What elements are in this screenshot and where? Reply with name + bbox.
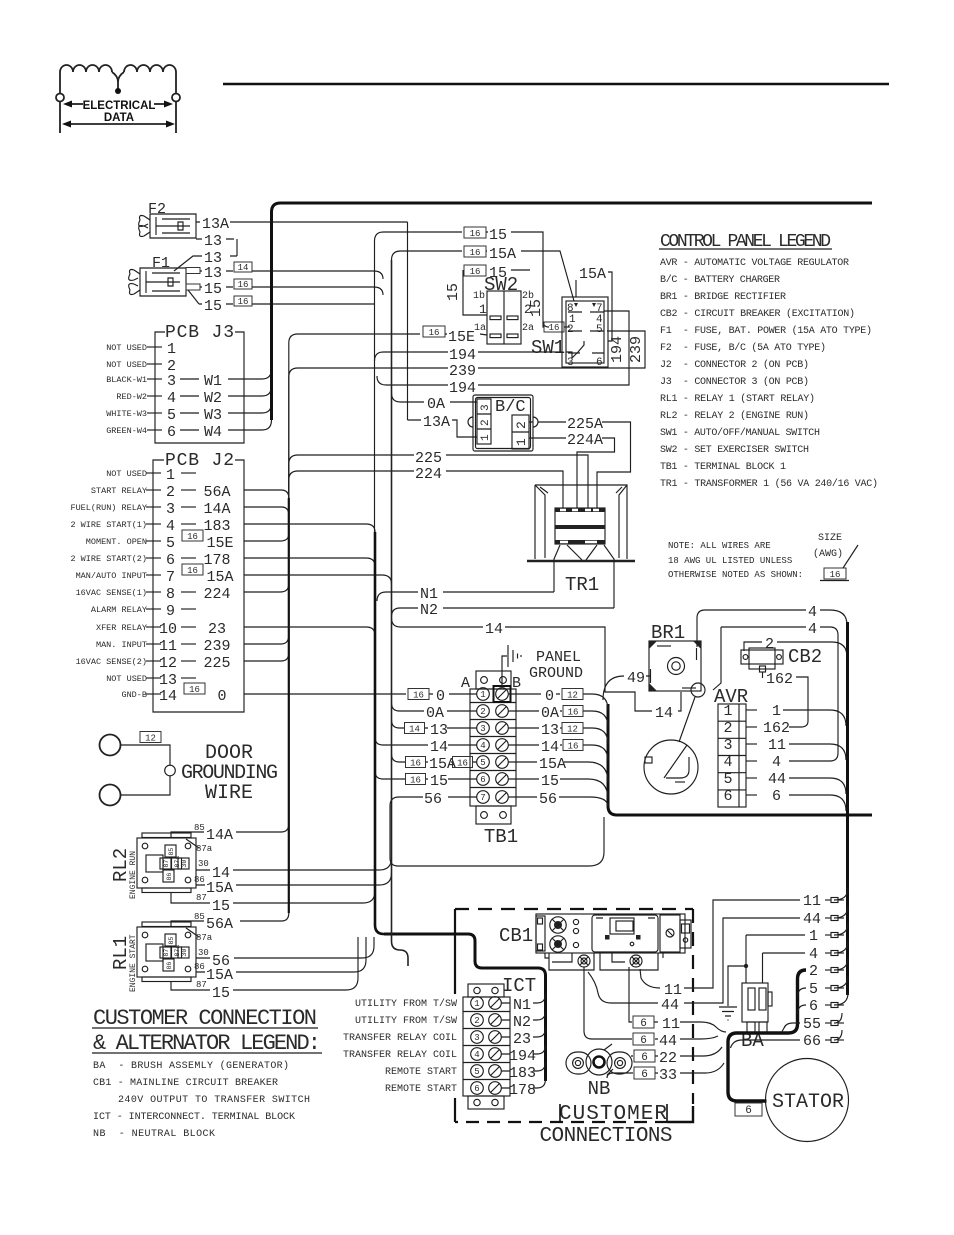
svg-text:13A: 13A bbox=[202, 216, 229, 233]
svg-text:XFER RELAY: XFER RELAY bbox=[96, 623, 147, 633]
J3 pin 6 bbox=[147, 429, 162, 431]
svg-text:7: 7 bbox=[480, 793, 485, 803]
TB1 B1 ground cell highlight bbox=[494, 686, 511, 702]
svg-text:33: 33 bbox=[659, 1067, 677, 1084]
connector J3 (PCB J3) bbox=[155, 332, 244, 443]
svg-text:4: 4 bbox=[808, 621, 817, 638]
svg-text:14: 14 bbox=[485, 621, 503, 638]
CB1 feet bbox=[545, 953, 663, 970]
J3 wire W4 bbox=[180, 429, 199, 431]
svg-text:225A: 225A bbox=[567, 416, 603, 433]
svg-text:86: 86 bbox=[194, 962, 205, 972]
svg-text:85: 85 bbox=[194, 823, 205, 833]
svg-text:23: 23 bbox=[513, 1031, 531, 1048]
svg-text:16VAC SENSE(1): 16VAC SENSE(1) bbox=[76, 588, 147, 598]
J2 pin 13 bbox=[146, 677, 161, 679]
svg-text:4: 4 bbox=[809, 946, 818, 963]
logo center tap bbox=[112, 72, 124, 90]
svg-text:239: 239 bbox=[628, 336, 645, 363]
wire 0 J2 pin14 to TB1-A1 bbox=[244, 693, 477, 695]
wire 11-6 (CB1 to stator trunk) bbox=[629, 967, 726, 1032]
wire 2 (CB2 to trunk) bbox=[744, 642, 847, 657]
svg-text:5: 5 bbox=[474, 1067, 479, 1077]
wire 0A TB1-B2 bbox=[509, 711, 609, 727]
svg-text:3: 3 bbox=[723, 737, 732, 754]
svg-text:16: 16 bbox=[187, 566, 198, 576]
svg-text:GND-B: GND-B bbox=[121, 690, 147, 700]
svg-text:15A: 15A bbox=[539, 756, 566, 773]
svg-text:F1: F1 bbox=[152, 255, 170, 272]
wire 15 to TB1-A6 bbox=[375, 771, 477, 779]
svg-text:TR1: TR1 bbox=[565, 574, 599, 596]
TB1-B harness bundle bbox=[608, 704, 872, 815]
wire 15 TB1-B6 bbox=[509, 779, 609, 799]
svg-text:SW2 - SET EXERCISER SWITCH: SW2 - SET EXERCISER SWITCH bbox=[660, 445, 809, 456]
svg-text:PCB J3: PCB J3 bbox=[165, 323, 234, 343]
svg-text:CB2 - CIRCUIT BREAKER (EXCITAT: CB2 - CIRCUIT BREAKER (EXCITATION) bbox=[660, 308, 855, 320]
svg-text:11: 11 bbox=[803, 893, 821, 910]
svg-text:NOT USED: NOT USED bbox=[106, 360, 147, 370]
J2 pin 7 bbox=[146, 574, 161, 576]
svg-text:87: 87 bbox=[163, 949, 170, 957]
wire 44 left (to CB1) bbox=[588, 918, 800, 1003]
svg-text:6: 6 bbox=[167, 424, 176, 441]
ICT row 4 bbox=[471, 1048, 484, 1061]
J2 pin 12 bbox=[146, 660, 161, 662]
svg-text:85: 85 bbox=[168, 937, 175, 945]
B/C right pin strip (1,2) bbox=[512, 415, 529, 449]
J2 pin 5 bbox=[146, 540, 161, 542]
svg-text:240V OUTPUT TO TRANSFER SWITCH: 240V OUTPUT TO TRANSFER SWITCH bbox=[118, 1095, 310, 1106]
svg-text:15A: 15A bbox=[206, 967, 233, 984]
wire 15E (J2 pin5 to SW2 1a) bbox=[244, 334, 420, 541]
harness trunk x375 bbox=[375, 532, 384, 934]
svg-text:13: 13 bbox=[541, 722, 559, 739]
svg-text:183: 183 bbox=[203, 518, 230, 535]
neutral block NB bbox=[566, 1052, 591, 1074]
svg-text:15A: 15A bbox=[429, 756, 456, 773]
svg-text:16: 16 bbox=[238, 280, 249, 290]
svg-text:TR1 - TRANSFORMER 1 (56 VA 240: TR1 - TRANSFORMER 1 (56 VA 240/16 VAC) bbox=[660, 478, 878, 490]
J3 wire W3 bbox=[180, 412, 199, 414]
wire 44-6 (CB1 to stator trunk) bbox=[584, 967, 718, 1039]
svg-text:12: 12 bbox=[159, 655, 177, 672]
wire 55 left bbox=[782, 1023, 800, 1032]
svg-text:4: 4 bbox=[474, 1050, 479, 1060]
J3 pin 5 bbox=[147, 412, 162, 414]
wire 183 (J2 pin4 into harness) bbox=[244, 524, 375, 532]
svg-text:DATA: DATA bbox=[104, 112, 134, 124]
svg-text:1: 1 bbox=[723, 703, 732, 720]
svg-text:STATOR: STATOR bbox=[772, 1091, 844, 1114]
svg-text:239: 239 bbox=[449, 363, 476, 380]
svg-text:86: 86 bbox=[194, 875, 205, 885]
svg-text:85: 85 bbox=[194, 912, 205, 922]
svg-text:183: 183 bbox=[509, 1065, 536, 1082]
RL1 wire 15A (pin 86) bbox=[196, 937, 366, 972]
svg-text:5: 5 bbox=[809, 981, 818, 998]
svg-text:22: 22 bbox=[659, 1050, 677, 1067]
svg-text:225: 225 bbox=[415, 450, 442, 467]
svg-text:4: 4 bbox=[808, 604, 817, 621]
wire 66 left bbox=[731, 1040, 801, 1048]
svg-text:16: 16 bbox=[238, 297, 249, 307]
svg-text:WIRE: WIRE bbox=[205, 782, 253, 805]
svg-text:225: 225 bbox=[203, 655, 230, 672]
svg-text:15: 15 bbox=[204, 298, 222, 315]
svg-text:12: 12 bbox=[145, 734, 156, 744]
J2 pin 2 bbox=[146, 489, 161, 491]
svg-text:2: 2 bbox=[524, 302, 532, 317]
svg-text:14: 14 bbox=[541, 739, 559, 756]
wire N1 bbox=[377, 592, 554, 601]
TB1 row 1 bbox=[477, 688, 490, 701]
TB1 row 3 bbox=[477, 722, 490, 735]
B/C keying notches bbox=[468, 417, 538, 427]
svg-text:87a: 87a bbox=[196, 933, 213, 943]
RL1 wire 56 (pin 30) bbox=[196, 937, 374, 958]
svg-text:6: 6 bbox=[640, 1018, 647, 1030]
RL1 wire 15 (pin 87) bbox=[171, 937, 358, 990]
wire 5 left bbox=[798, 988, 807, 997]
ground symbol bbox=[719, 1007, 737, 1020]
header rule bbox=[223, 83, 889, 85]
svg-text:16: 16 bbox=[410, 776, 421, 786]
svg-text:F2: F2 bbox=[148, 201, 166, 218]
svg-text:MAN. INPUT: MAN. INPUT bbox=[96, 640, 147, 650]
svg-text:BLACK-W1: BLACK-W1 bbox=[106, 375, 147, 385]
wire 1 left (to BA) bbox=[746, 934, 805, 936]
svg-text:RL1 - RELAY 1 (START RELAY): RL1 - RELAY 1 (START RELAY) bbox=[660, 393, 815, 405]
right harness trunk bbox=[846, 622, 849, 995]
svg-text:A: A bbox=[461, 675, 470, 692]
svg-text:0: 0 bbox=[436, 688, 445, 705]
ICT wire 178 bbox=[502, 1079, 546, 1088]
svg-text:14: 14 bbox=[238, 263, 249, 273]
svg-text:87a: 87a bbox=[196, 844, 213, 854]
svg-text:13: 13 bbox=[204, 265, 222, 282]
svg-text:15: 15 bbox=[445, 283, 462, 301]
J2 pin 4 bbox=[146, 523, 161, 525]
J2 pin 11 bbox=[146, 643, 161, 645]
svg-text:16: 16 bbox=[470, 229, 481, 239]
wire 15A to TB1-A5 bbox=[392, 754, 477, 762]
svg-text:ICT - INTERCONNECT. TERMINAL B: ICT - INTERCONNECT. TERMINAL BLOCK bbox=[93, 1112, 295, 1123]
BA pin1 wire (1) bbox=[745, 935, 747, 983]
svg-text:3: 3 bbox=[567, 357, 574, 369]
svg-text:2: 2 bbox=[567, 324, 574, 336]
relay RL1 (ENGINE START) bbox=[142, 922, 191, 927]
svg-text:16: 16 bbox=[187, 532, 198, 542]
svg-text:178: 178 bbox=[203, 552, 230, 569]
svg-text:NOT USED: NOT USED bbox=[106, 469, 147, 479]
svg-text:16: 16 bbox=[413, 691, 424, 701]
svg-text:16: 16 bbox=[568, 742, 579, 752]
svg-text:CB1 - MAINLINE CIRCUIT BREAKER: CB1 - MAINLINE CIRCUIT BREAKER bbox=[93, 1078, 278, 1089]
AVR wire 44 bbox=[789, 778, 846, 794]
svg-text:F1 - FUSE, BAT. POWER (15A AT: F1 - FUSE, BAT. POWER (15A ATO TYPE) bbox=[660, 325, 872, 337]
svg-text:178: 178 bbox=[509, 1082, 536, 1099]
trunk J2 bundle vertical bbox=[288, 498, 290, 913]
J3 pin 4 bbox=[147, 395, 162, 397]
wire 6 left bbox=[798, 1005, 807, 1014]
svg-text:56: 56 bbox=[424, 791, 442, 808]
svg-text:194: 194 bbox=[449, 347, 476, 364]
svg-text:86: 86 bbox=[166, 873, 173, 881]
J2 pin 3 bbox=[146, 506, 161, 508]
svg-text:18 AWG UL LISTED UNLESS: 18 AWG UL LISTED UNLESS bbox=[668, 556, 792, 566]
door grounding wire bbox=[100, 735, 121, 756]
wire 178 (J2 pin6 into harness) bbox=[244, 558, 375, 566]
svg-text:1: 1 bbox=[514, 438, 529, 446]
CB1 bottom screw A bbox=[578, 955, 590, 967]
svg-text:16: 16 bbox=[568, 708, 579, 718]
svg-text:14: 14 bbox=[409, 725, 420, 735]
TR1 bobbin bbox=[555, 508, 605, 544]
svg-text:1: 1 bbox=[474, 999, 479, 1009]
CB1 lug B bbox=[550, 936, 566, 952]
wire 239 (J2 pin11 to SW1 pin5) bbox=[244, 331, 645, 644]
J3 wire W2 bbox=[180, 395, 199, 397]
svg-text:30: 30 bbox=[198, 948, 209, 958]
wire 13 TB1-B3 bbox=[509, 728, 609, 744]
svg-text:4: 4 bbox=[723, 754, 732, 771]
wire N2 bbox=[392, 608, 615, 617]
svg-text:224: 224 bbox=[203, 586, 230, 603]
wire 15 [16] lower from F1 bbox=[188, 290, 366, 304]
svg-text:16: 16 bbox=[189, 685, 200, 695]
svg-text:& ALTERNATOR LEGEND:: & ALTERNATOR LEGEND: bbox=[93, 1031, 321, 1056]
harness trunk x391 bbox=[392, 260, 409, 966]
svg-text:6: 6 bbox=[640, 1035, 647, 1047]
svg-text:START RELAY: START RELAY bbox=[91, 486, 147, 496]
svg-text:85: 85 bbox=[168, 848, 175, 856]
CB1 mechanism bbox=[592, 915, 658, 952]
wire 14 to TB1-A4 bbox=[375, 737, 477, 745]
circuit breaker CB2 bbox=[741, 650, 783, 664]
svg-text:87: 87 bbox=[196, 980, 207, 990]
wire 194 (lower, from SW1 pin7 loop) bbox=[377, 311, 629, 385]
svg-text:TB1: TB1 bbox=[484, 826, 518, 848]
svg-text:14: 14 bbox=[430, 739, 448, 756]
svg-text:15: 15 bbox=[489, 227, 507, 244]
wire 22 (NB to stator trunk) bbox=[631, 1047, 722, 1056]
logo left lead bbox=[59, 72, 61, 93]
svg-text:SW1: SW1 bbox=[531, 337, 565, 359]
ICT wire 23 bbox=[502, 1028, 546, 1037]
svg-text:CONNECTIONS: CONNECTIONS bbox=[540, 1125, 673, 1148]
svg-text:2: 2 bbox=[480, 707, 485, 717]
svg-text:3: 3 bbox=[480, 724, 485, 734]
svg-text:NB - NEUTRAL BLOCK: NB - NEUTRAL BLOCK bbox=[93, 1129, 215, 1140]
svg-text:SW2: SW2 bbox=[484, 274, 518, 296]
wire 0A (trunk to B/C) bbox=[392, 393, 478, 402]
wire 13 to TB1-A3 bbox=[392, 720, 477, 728]
field meter circle bbox=[644, 740, 698, 794]
svg-text:44: 44 bbox=[659, 1033, 677, 1050]
connector J2 (PCB J2) bbox=[153, 460, 244, 712]
svg-text:UTILITY FROM T/SW: UTILITY FROM T/SW bbox=[355, 1015, 457, 1027]
svg-text:87: 87 bbox=[196, 893, 207, 903]
ICT wire 183 bbox=[502, 1062, 546, 1071]
wire 13 [14] from F1 bbox=[200, 271, 383, 279]
svg-text:15: 15 bbox=[212, 898, 230, 915]
ICT wire N2 bbox=[502, 1011, 546, 1020]
B/C left pin strip (1,2,3) bbox=[477, 399, 491, 444]
svg-text:87: 87 bbox=[163, 860, 170, 868]
svg-text:1: 1 bbox=[809, 928, 818, 945]
svg-text:AVR - AUTOMATIC VOLTAGE REGULA: AVR - AUTOMATIC VOLTAGE REGULATOR bbox=[660, 258, 849, 269]
svg-text:30: 30 bbox=[198, 859, 209, 869]
svg-text:GROUND: GROUND bbox=[529, 665, 583, 682]
svg-text:2b: 2b bbox=[522, 290, 534, 302]
svg-text:44: 44 bbox=[803, 911, 821, 928]
svg-text:30: 30 bbox=[181, 949, 188, 957]
[16] box at SW1 pin2 bbox=[544, 322, 564, 332]
wire 15 top row [16] bbox=[464, 227, 486, 238]
J2 pin 1 bbox=[146, 472, 161, 474]
svg-text:6: 6 bbox=[480, 775, 485, 785]
svg-text:CB2: CB2 bbox=[788, 646, 822, 668]
trunk: F1 15 riser bbox=[366, 232, 462, 532]
svg-text:TRANSFER RELAY COIL: TRANSFER RELAY COIL bbox=[343, 1050, 457, 1061]
battery charger B/C bbox=[473, 395, 533, 451]
svg-text:11: 11 bbox=[768, 737, 786, 754]
svg-text:5: 5 bbox=[596, 324, 603, 336]
svg-text:NOT USED: NOT USED bbox=[106, 343, 147, 353]
RL1 pin 87a leader bbox=[186, 928, 199, 937]
svg-text:162: 162 bbox=[766, 671, 793, 688]
J2 pin 10 bbox=[146, 626, 161, 628]
J2 pin 8 bbox=[146, 591, 161, 593]
svg-text:16: 16 bbox=[470, 267, 481, 277]
svg-text:3: 3 bbox=[166, 501, 175, 518]
BA pin4 wire bbox=[762, 953, 764, 983]
svg-text:194: 194 bbox=[609, 336, 626, 363]
svg-text:6: 6 bbox=[474, 1084, 479, 1094]
svg-text:ENGINE RUN: ENGINE RUN bbox=[129, 851, 138, 899]
wire 49 to BR1 bbox=[603, 676, 650, 700]
svg-text:6: 6 bbox=[723, 788, 732, 805]
ICT row 2 bbox=[471, 1014, 484, 1027]
J3 pin 3 bbox=[147, 378, 162, 380]
wire 15 [16] from F1 bbox=[200, 287, 383, 295]
TR1 base plate bbox=[527, 560, 635, 563]
svg-text:194: 194 bbox=[449, 380, 476, 397]
svg-text:56A: 56A bbox=[206, 916, 233, 933]
svg-text:0A: 0A bbox=[426, 705, 444, 722]
wire 15A second row [16] bbox=[392, 251, 463, 260]
trunk J2 bundle upper entries bbox=[244, 490, 289, 515]
RL2 wire 14A (pin 85) bbox=[171, 824, 289, 838]
wire 15A TB1-B5 bbox=[509, 762, 609, 782]
svg-text:2: 2 bbox=[480, 419, 492, 426]
wire 23 (J2 pin10 into harness) bbox=[244, 627, 375, 635]
svg-text:4: 4 bbox=[166, 518, 175, 535]
svg-text:194: 194 bbox=[509, 1048, 536, 1065]
wire 4 left (to BA) bbox=[763, 952, 806, 954]
svg-text:11: 11 bbox=[159, 638, 177, 655]
svg-text:5: 5 bbox=[723, 771, 732, 788]
svg-text:CB1: CB1 bbox=[499, 925, 533, 947]
svg-text:6: 6 bbox=[745, 1105, 752, 1117]
svg-text:16: 16 bbox=[549, 323, 560, 333]
ICT row 6 bbox=[471, 1082, 484, 1095]
svg-text:2 WIRE START(2): 2 WIRE START(2) bbox=[70, 554, 147, 564]
riser 15 first to SW1 pin2 bbox=[543, 233, 549, 327]
stator thick harness bbox=[728, 970, 806, 1101]
svg-text:W2: W2 bbox=[204, 390, 222, 407]
svg-text:W1: W1 bbox=[204, 373, 222, 390]
svg-text:ICT: ICT bbox=[502, 975, 536, 997]
svg-text:6: 6 bbox=[809, 998, 818, 1015]
svg-text:49: 49 bbox=[627, 670, 645, 687]
svg-text:15E: 15E bbox=[206, 535, 233, 552]
svg-text:6: 6 bbox=[641, 1052, 648, 1064]
F1 pin stubs bbox=[186, 268, 200, 274]
wire 4 lower (AVR pin4 loop) bbox=[713, 627, 838, 761]
svg-text:REMOTE START: REMOTE START bbox=[385, 1084, 457, 1095]
svg-text:2: 2 bbox=[514, 421, 529, 429]
svg-text:13: 13 bbox=[159, 672, 177, 689]
svg-text:UTILITY FROM T/SW: UTILITY FROM T/SW bbox=[355, 998, 457, 1010]
ground wire from BA bbox=[728, 966, 746, 1006]
wire 15 third row [16] bbox=[464, 265, 486, 276]
transformer TR1 bbox=[535, 485, 627, 559]
svg-text:N2: N2 bbox=[513, 1014, 531, 1031]
TB1 row 6 bbox=[477, 773, 490, 786]
wire 225 (J2 pin12 up and to TR1) bbox=[244, 455, 588, 661]
svg-text:CUSTOMER CONNECTION: CUSTOMER CONNECTION bbox=[93, 1006, 317, 1031]
svg-text:56: 56 bbox=[539, 791, 557, 808]
svg-text:66: 66 bbox=[803, 1033, 821, 1050]
svg-text:W3: W3 bbox=[204, 407, 222, 424]
J3 pin 2 bbox=[147, 363, 162, 365]
svg-text:2: 2 bbox=[166, 484, 175, 501]
logo right lead bbox=[175, 72, 177, 93]
wire 225A (B/C to TR1) bbox=[529, 422, 631, 509]
svg-text:4: 4 bbox=[772, 754, 781, 771]
svg-text:86: 86 bbox=[166, 962, 173, 970]
wire 162 (CB2 to AVR pin2) bbox=[763, 672, 809, 727]
svg-text:TRANSFER RELAY COIL: TRANSFER RELAY COIL bbox=[343, 1033, 457, 1044]
svg-text:BR1 - BRIDGE RECTIFIER: BR1 - BRIDGE RECTIFIER bbox=[660, 292, 786, 303]
wire 13A from F2 bbox=[196, 221, 408, 223]
TB1 row 5 bbox=[477, 756, 490, 769]
svg-text:16: 16 bbox=[429, 328, 440, 338]
svg-text:13A: 13A bbox=[423, 414, 450, 431]
svg-text:5: 5 bbox=[480, 758, 485, 768]
svg-text:1: 1 bbox=[772, 703, 781, 720]
svg-text:TB1 - TERMINAL BLOCK 1: TB1 - TERMINAL BLOCK 1 bbox=[660, 462, 786, 473]
[6] box on stator lead bbox=[735, 1103, 762, 1116]
svg-text:ELECTRICAL: ELECTRICAL bbox=[83, 100, 156, 112]
svg-text:15E: 15E bbox=[448, 329, 475, 346]
ICT row 3 bbox=[471, 1031, 484, 1044]
trunk W-harness (J3 bundle) bbox=[272, 203, 873, 420]
svg-text:14A: 14A bbox=[203, 501, 230, 518]
TB1 row 4 bbox=[477, 739, 490, 752]
electrical data logo coil left bbox=[60, 65, 112, 72]
svg-text:1: 1 bbox=[480, 690, 485, 700]
TB1 row 2 bbox=[477, 705, 490, 718]
svg-text:0A: 0A bbox=[427, 396, 445, 413]
ICT wire N1 bbox=[502, 994, 546, 1003]
svg-text:15A: 15A bbox=[489, 246, 516, 263]
RL1 wire 56A (pin 85) bbox=[171, 913, 289, 927]
CB1 right plate bbox=[660, 915, 680, 952]
svg-text:6: 6 bbox=[166, 552, 175, 569]
